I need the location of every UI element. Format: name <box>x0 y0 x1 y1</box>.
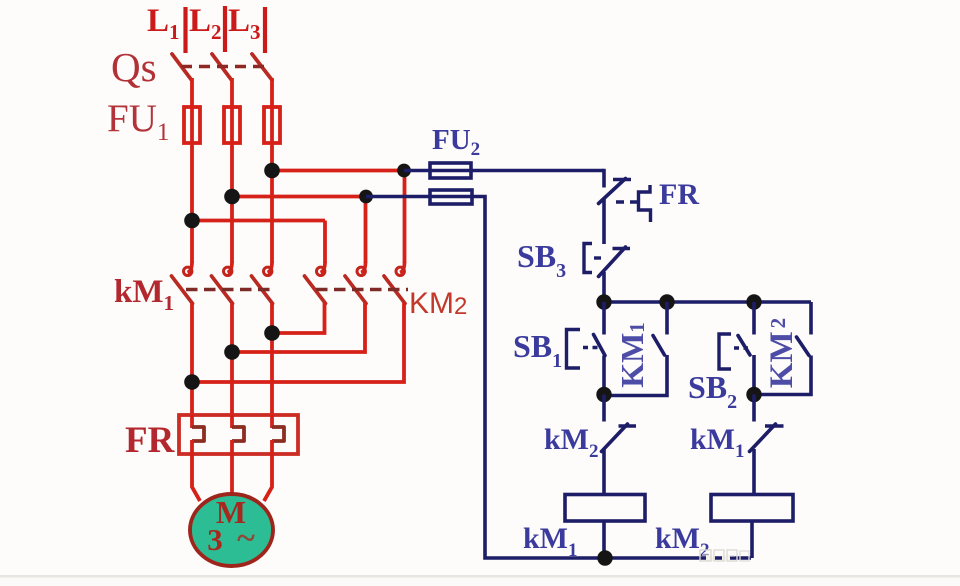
wire KM2 out B <box>232 303 365 352</box>
node dot right mid <box>746 387 761 402</box>
fuse FU2 top <box>430 163 471 178</box>
contact KM2 aux <box>754 302 811 395</box>
svg-text:kM2: kM2 <box>544 423 599 462</box>
pushbutton SB2 <box>719 302 754 395</box>
coil KM2 <box>711 495 793 522</box>
thermal contact FR <box>599 179 651 223</box>
coil KM1 <box>565 495 645 522</box>
svg-text:FU1: FU1 <box>107 97 169 146</box>
wire phase2 lower <box>230 303 234 415</box>
contactor KM2 main contacts <box>305 262 409 304</box>
node dot phase3/row1 <box>264 163 280 179</box>
wire rung mid1 <box>602 198 606 244</box>
node dot bottom rail <box>597 550 612 565</box>
contact kM1 NC interlock <box>750 395 784 495</box>
svg-text:SB3: SB3 <box>517 238 566 282</box>
wire KM2 feed B <box>364 197 368 264</box>
wire main rung upper <box>602 169 606 188</box>
motor M 3~ <box>190 494 273 566</box>
wire KM2 feed A <box>323 221 327 264</box>
node dot bus2 <box>659 294 674 309</box>
thermal relay FR heaters <box>179 414 298 455</box>
wire coil2 bottom <box>750 521 754 558</box>
svg-text:L3: L3 <box>228 3 261 44</box>
svg-text:KM1: KM1 <box>614 322 650 388</box>
node dot cross A <box>264 325 280 341</box>
wire coil1 bottom <box>602 521 606 558</box>
wire phase1 middle <box>190 221 194 264</box>
wire phase3 lower <box>270 303 274 415</box>
wire motor lead3 <box>264 454 272 501</box>
svg-text:FR: FR <box>659 178 699 211</box>
svg-text:SB1: SB1 <box>513 328 562 372</box>
wire motor lead2 <box>230 454 234 496</box>
node dot bus3 <box>746 294 761 309</box>
contact KM1 aux <box>604 302 667 396</box>
svg-text:3: 3 <box>207 522 223 557</box>
wire tap row2 (phase2 to FU2 bottom) <box>232 195 366 199</box>
node dot FU2 bottom <box>359 190 373 204</box>
wire branch top bus <box>604 300 811 304</box>
pushbutton SB1 <box>567 302 606 395</box>
switch QS <box>172 54 272 80</box>
fuse FU1 <box>184 107 280 143</box>
svg-text:KM2: KM2 <box>409 287 467 320</box>
node dot bus1 <box>596 294 611 309</box>
wire phase2 upper <box>230 78 234 197</box>
wire phase3 middle <box>270 171 274 263</box>
node dot phase1/row3 <box>184 213 200 229</box>
wire KM2 out C <box>192 303 404 382</box>
svg-text:FU2: FU2 <box>432 124 480 160</box>
wire phase1 upper <box>190 78 194 221</box>
svg-text:L2: L2 <box>189 3 222 44</box>
wire tap row3 (phase1 to KM2 pole A) <box>192 219 325 223</box>
pushbutton SB3 <box>584 244 630 277</box>
svg-text:L1: L1 <box>147 3 180 44</box>
wire control top <box>404 169 604 173</box>
watermark smudge <box>700 550 749 561</box>
svg-text:~: ~ <box>237 520 255 557</box>
node L1 terminal <box>183 7 187 53</box>
contactor KM1 main contacts <box>172 262 277 304</box>
wire phase3 upper <box>270 78 274 171</box>
wire motor lead1 <box>192 454 200 501</box>
node L3 terminal <box>263 7 267 53</box>
contact kM2 NC interlock <box>602 395 637 495</box>
node dot FU2 top <box>397 164 411 178</box>
node dot left mid <box>596 387 611 402</box>
bottom separator strip <box>0 575 960 586</box>
wire phase1 lower <box>190 303 194 415</box>
svg-text:kM2: kM2 <box>655 522 710 561</box>
wire phase2 middle <box>230 197 234 264</box>
wire KM2 feed C <box>403 171 407 264</box>
wire KM2 out A <box>272 303 325 333</box>
node L2 terminal <box>223 6 227 52</box>
node dot cross B <box>224 344 240 360</box>
node dot cross C <box>184 374 200 390</box>
svg-text:kM1: kM1 <box>690 423 745 462</box>
svg-text:SB2: SB2 <box>688 369 737 413</box>
node dot phase2/row2 <box>224 189 240 205</box>
svg-text:FR: FR <box>125 420 176 461</box>
wire control rail left <box>366 197 751 559</box>
wire tap row1 (phase3 to FU2 top) <box>272 169 404 173</box>
fuse FU2 bottom <box>430 190 472 204</box>
svg-text:Qs: Qs <box>111 44 157 90</box>
svg-text:KM2: KM2 <box>764 318 800 388</box>
wire rung mid2 <box>602 272 606 302</box>
svg-text:kM1: kM1 <box>114 274 174 315</box>
svg-text:kM1: kM1 <box>523 522 578 561</box>
